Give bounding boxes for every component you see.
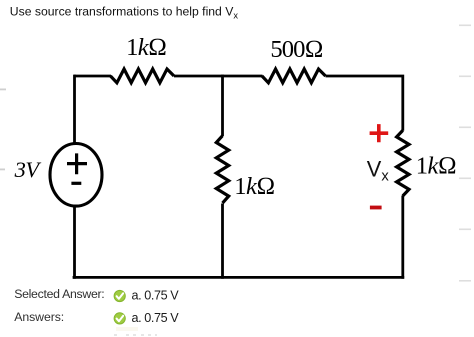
wire right-bottom segment (401, 196, 404, 279)
svg-text:Answers:: Answers: (14, 310, 64, 324)
resistor R2 500Ω (top-right horizontal) (262, 69, 326, 83)
svg-text:Vx: Vx (367, 157, 390, 185)
icon correct checkmark row1 (114, 290, 125, 301)
wire left-bottom segment (73, 206, 76, 279)
wire top-left segment (74, 75, 111, 78)
wire top-right segment and right drop (326, 76, 403, 131)
red minus polarity mark (370, 206, 382, 210)
red plus polarity mark (370, 124, 389, 142)
svg-text:500Ω: 500Ω (270, 36, 322, 63)
wire top-middle segment (174, 75, 263, 78)
svg-text:Selected Answer:: Selected Answer: (14, 287, 104, 301)
wire left-top segment (73, 75, 76, 145)
faint beige smudge bottom (116, 327, 138, 331)
resistor R1 1kΩ (top-left horizontal) (111, 69, 175, 83)
svg-text:1kΩ: 1kΩ (234, 173, 274, 200)
resistor R3 1kΩ (right vertical) (397, 130, 409, 196)
wire bottom (73, 276, 405, 279)
faint page marks left edge (0, 89, 6, 171)
voltage source V1 circle (50, 144, 102, 207)
faint page rule marks right edge (459, 25, 471, 282)
svg-text:a. 0.75 V: a. 0.75 V (132, 288, 180, 302)
faint partial next-row marks bottom (114, 334, 157, 336)
svg-text:Use source transformations to: Use source transformations to help find … (10, 4, 239, 20)
resistor R4 1kΩ (middle vertical) (216, 136, 228, 203)
voltage source plus sign (67, 153, 87, 174)
wire middle-bottom segment (221, 204, 224, 279)
svg-text:1kΩ: 1kΩ (126, 34, 166, 61)
svg-text:1kΩ: 1kΩ (416, 152, 456, 179)
svg-text:3V: 3V (14, 157, 42, 182)
voltage source minus sign (71, 182, 81, 185)
wire middle-top segment (221, 75, 224, 136)
icon correct checkmark row2 (114, 313, 125, 324)
svg-text:a. 0.75 V: a. 0.75 V (132, 311, 180, 325)
